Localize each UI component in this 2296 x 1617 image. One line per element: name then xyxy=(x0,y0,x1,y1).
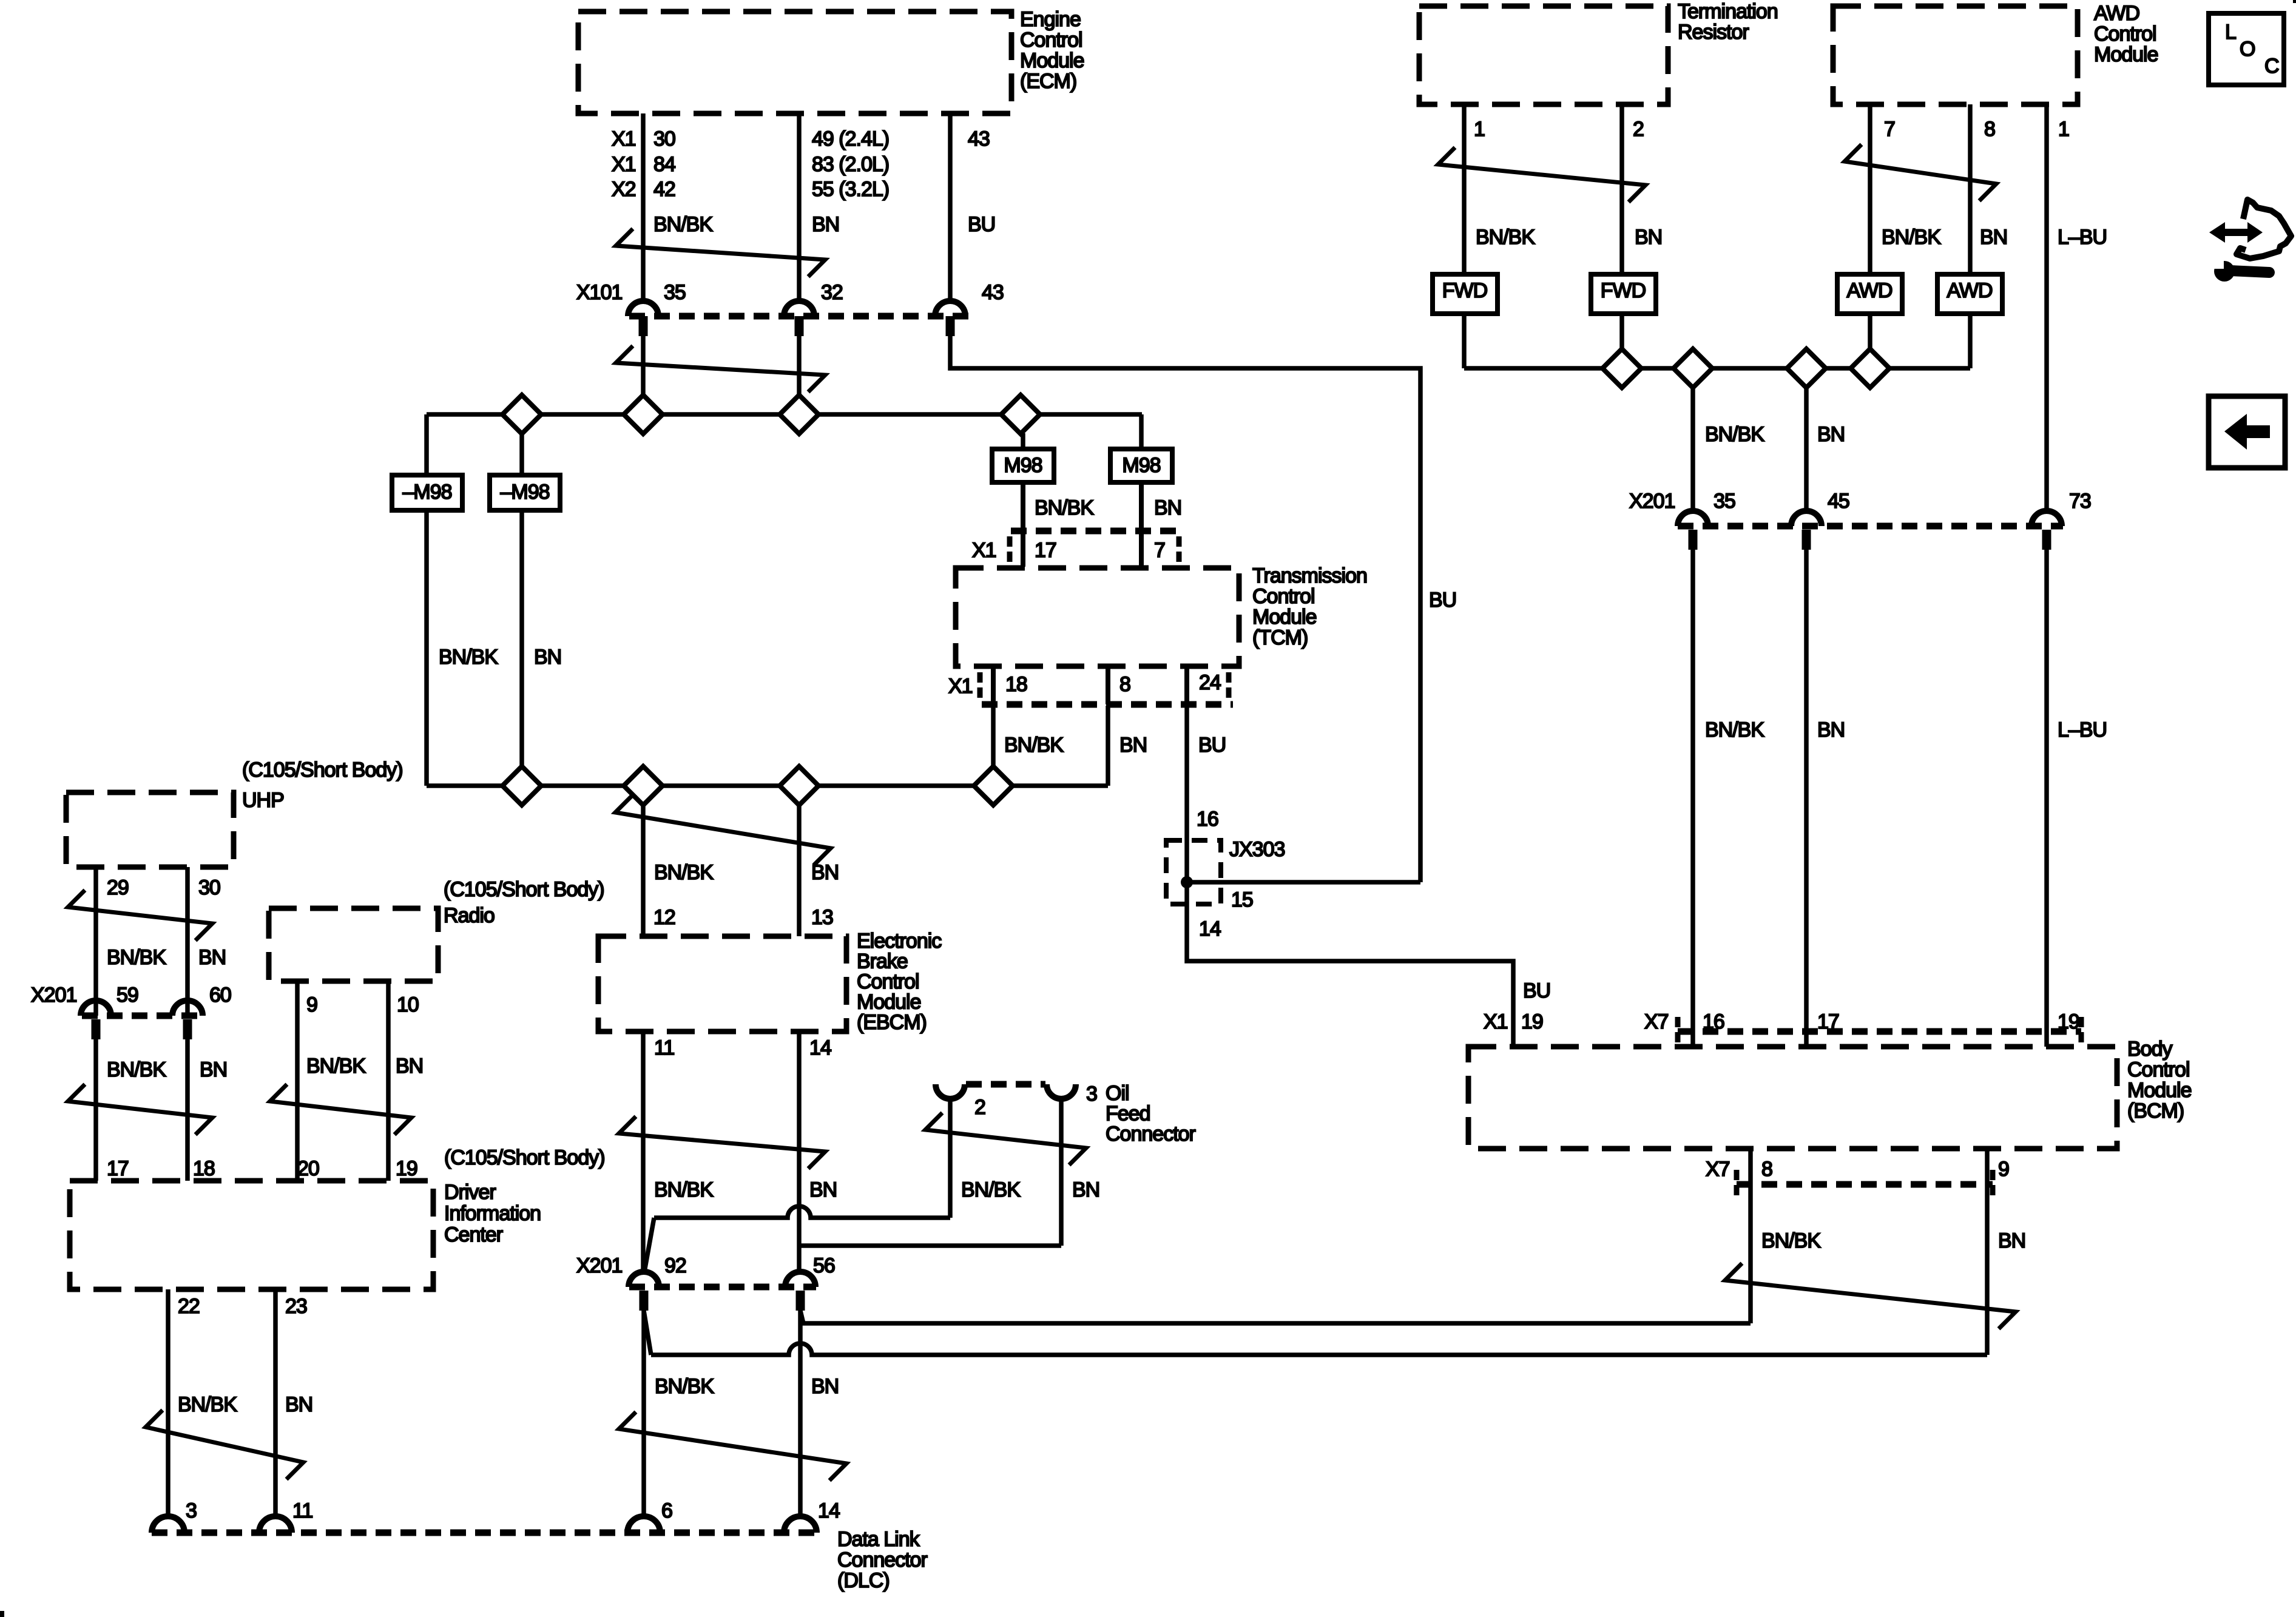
svg-text:Module: Module xyxy=(1252,606,1317,629)
icon double arrow + contour + wrench xyxy=(2209,200,2291,282)
net box FWD no.2 xyxy=(1591,274,1656,314)
svg-text:L–BU: L–BU xyxy=(2058,226,2107,249)
svg-text:BN/BK: BN/BK xyxy=(1761,1229,1821,1252)
pin TCM-8 wire xyxy=(1108,667,1130,704)
wire Radio-9 down to DIC-20 xyxy=(297,981,317,1181)
wire X201-56 down to DLC-14 xyxy=(798,1311,803,1518)
wire TCM-24 BU down to JX303 xyxy=(1184,706,1189,840)
svg-text:9: 9 xyxy=(306,993,317,1016)
connector X101 pin 32 arc+stub xyxy=(784,281,843,336)
splice diamond bus3 at 3082 xyxy=(1851,349,1889,388)
connector TCM X1 bottom dashed line xyxy=(980,672,1233,704)
wire bus3 diamond down to X201-35 xyxy=(1690,387,1695,511)
svg-text:Module: Module xyxy=(2127,1079,2192,1102)
svg-text:7: 7 xyxy=(1884,118,1895,141)
label Data Link Connector (DLC) xyxy=(837,1528,928,1592)
svg-text:42: 42 xyxy=(653,178,675,201)
twisted pair symbol (oil feed) xyxy=(925,1113,1086,1165)
svg-text:BU: BU xyxy=(1198,734,1226,757)
net box AWD no.1 xyxy=(1837,274,1902,314)
svg-text:L–BU: L–BU xyxy=(2058,718,2107,741)
wire Term pin 2 down xyxy=(1622,104,1644,274)
svg-text:8: 8 xyxy=(1984,118,1995,141)
label X201 (bottom) xyxy=(576,1254,622,1277)
pin TCM-24 wire xyxy=(1187,667,1221,704)
svg-text:29: 29 xyxy=(107,876,129,899)
label BN/BK (TCM-18) xyxy=(1004,734,1064,757)
wire ECM pin 30 BN/BK down to X101-35 xyxy=(641,113,646,302)
label pin 13 (EBCM) xyxy=(811,906,833,929)
twisted pair symbol (AWD wires) xyxy=(1845,144,1996,201)
label BN (Radio-10) xyxy=(396,1055,423,1078)
wire AWD pin 1 L-BU down to X201-73 xyxy=(2047,104,2069,511)
svg-text:X7: X7 xyxy=(1706,1158,1730,1181)
svg-text:16: 16 xyxy=(1703,1010,1724,1033)
wire DIC-22 down to DLC-3 xyxy=(168,1289,200,1517)
svg-text:Control: Control xyxy=(1020,29,1082,52)
svg-text:16: 16 xyxy=(1197,808,1218,831)
svg-text:AWD: AWD xyxy=(2094,2,2139,25)
svg-text:X2: X2 xyxy=(612,178,636,201)
label BN/BK (X201-35 to BCM) xyxy=(1705,718,1764,741)
label (C105/Short Body) near Radio xyxy=(444,878,604,901)
label (C105/Short Body) near DIC xyxy=(444,1146,605,1169)
wire bus1 right end down to M98 box2 xyxy=(1139,414,1144,449)
svg-text:92: 92 xyxy=(664,1254,686,1277)
svg-text:3: 3 xyxy=(1086,1082,1097,1106)
svg-text:10: 10 xyxy=(397,993,419,1016)
label BN (EBCM-13 wire) xyxy=(811,861,839,884)
connector X201 pin 73 arc+stub xyxy=(2031,490,2091,550)
label X101 xyxy=(576,281,622,304)
wire ECM pin 49 BN down to X101-32 xyxy=(797,113,802,302)
label BN (Term-2) xyxy=(1635,226,1662,249)
label BN (TCM-8) xyxy=(1119,734,1147,757)
label BN/BK (Radio-9) xyxy=(306,1055,366,1078)
svg-text:Resistor: Resistor xyxy=(1678,21,1749,44)
label BU (tall vertical) xyxy=(1429,589,1456,612)
connector TCM X1 top dashed line xyxy=(1010,531,1180,563)
svg-text:(BCM): (BCM) xyxy=(2127,1099,2184,1122)
svg-text:Connector: Connector xyxy=(1106,1122,1196,1146)
label Termination Resistor xyxy=(1678,0,1778,44)
wire EBCM-11 BN/BK down to X201-92 xyxy=(641,1031,646,1273)
wire bus3 diamond down to X201-45 xyxy=(1804,387,1809,511)
label pin 18 (DIC) xyxy=(193,1157,215,1180)
svg-text:BN: BN xyxy=(1817,423,1845,446)
svg-text:Module: Module xyxy=(857,991,921,1014)
svg-text:49 (2.4L): 49 (2.4L) xyxy=(812,127,889,150)
svg-text:Control: Control xyxy=(2127,1058,2190,1081)
splice diamond bus1 at 1320 xyxy=(780,395,819,434)
svg-text:Module: Module xyxy=(1020,49,1084,72)
twisted pair symbol (below X101) xyxy=(616,346,825,392)
svg-text:Module: Module xyxy=(2094,43,2158,66)
label Transmission Control Module (TCM) xyxy=(1252,564,1367,649)
wire bus1 horizontal xyxy=(427,412,1142,417)
wire AWD-7 to bus3 diamond xyxy=(1868,314,1872,349)
svg-text:BN: BN xyxy=(812,213,839,236)
svg-text:BN: BN xyxy=(1635,226,1662,249)
svg-text:X101: X101 xyxy=(576,281,622,304)
svg-text:BN: BN xyxy=(811,861,839,884)
connector X201 pin 59 arc+stub xyxy=(81,984,138,1039)
twisted pair symbol (UHP wires) xyxy=(68,890,212,940)
svg-text:X201: X201 xyxy=(1629,490,1675,513)
wire bus1 left end down to bus2 (through -M98) xyxy=(424,414,429,786)
label pin 12 (EBCM) xyxy=(653,906,675,929)
svg-text:BN/BK: BN/BK xyxy=(654,861,714,884)
wire X101-32 down to bus1 diamond xyxy=(797,336,802,396)
svg-text:14: 14 xyxy=(1199,917,1221,940)
label ECM pin rows X1 30 / X1 84 / X2 42 xyxy=(612,127,675,201)
svg-text:Connector: Connector xyxy=(837,1548,928,1571)
label BN (above DLC-14) xyxy=(811,1375,839,1398)
svg-text:56: 56 xyxy=(813,1254,835,1277)
connector Oil Feed pin 3 arc xyxy=(1047,1082,1097,1106)
svg-text:Feed: Feed xyxy=(1106,1102,1150,1126)
label BN/BK (EBCM-12 wire) xyxy=(654,861,714,884)
svg-text:BN/BK: BN/BK xyxy=(1004,734,1064,757)
pin TCM-18 wire xyxy=(993,667,1027,704)
wire UHP-30 down to X201-60 xyxy=(187,867,220,1016)
svg-text:(DLC): (DLC) xyxy=(837,1569,890,1592)
junction dot JX303 xyxy=(1181,876,1193,888)
icon LOC box xyxy=(2209,13,2284,85)
label BN/BK (oil feed 2) xyxy=(961,1178,1021,1201)
svg-text:11: 11 xyxy=(654,1036,674,1059)
svg-text:1: 1 xyxy=(1474,118,1485,141)
wire X201-73 down to BCM X7-19 xyxy=(2044,549,2049,1047)
label BN (AWD-8) xyxy=(1980,226,2007,249)
svg-text:BN: BN xyxy=(534,646,561,669)
ground box -M98 no.1 xyxy=(392,475,462,510)
connector X201 right dashed line xyxy=(1678,523,2063,530)
svg-text:BU: BU xyxy=(968,213,995,236)
svg-text:Body: Body xyxy=(2127,1038,2172,1061)
label BN (X201-45 to BCM) xyxy=(1817,718,1845,741)
svg-text:(TCM): (TCM) xyxy=(1252,626,1308,649)
connector X201 pin 45 arc+stub xyxy=(1791,490,1849,550)
label BN (UHP-30) xyxy=(198,946,226,969)
label pin 19 (BCM X7) xyxy=(2058,1010,2079,1033)
svg-text:X7: X7 xyxy=(1644,1010,1669,1033)
module Termination Resistor box xyxy=(1419,6,1668,104)
connector DLC dashed line xyxy=(152,1530,816,1536)
label L-BU (X201-73 to BCM) xyxy=(2058,718,2107,741)
label pin 17 (BCM X7) xyxy=(1817,1010,1839,1033)
svg-text:BN: BN xyxy=(1998,1229,2025,1252)
wire X201-59 down to DIC-17 xyxy=(93,1039,98,1181)
svg-text:Brake: Brake xyxy=(857,950,908,973)
svg-text:C: C xyxy=(2264,55,2279,78)
label BN (ECM wire) xyxy=(812,213,839,236)
label pin 7 (TCM) xyxy=(1154,539,1165,562)
svg-text:Driver: Driver xyxy=(444,1181,496,1204)
svg-text:32: 32 xyxy=(821,281,843,304)
wire M98 box2 down to TCM X1-7 xyxy=(1139,482,1144,567)
svg-text:O: O xyxy=(2240,38,2255,61)
svg-text:Radio: Radio xyxy=(444,904,495,927)
connector X201 pin 56 arc+stub xyxy=(785,1254,835,1311)
label Body Control Module (BCM) xyxy=(2127,1038,2192,1122)
ground box M98 no.1 xyxy=(992,449,1054,482)
label (C105/Short Body) near bus2 left xyxy=(242,758,403,781)
svg-text:X1: X1 xyxy=(948,675,973,698)
splice diamond bus1 at 860 xyxy=(502,395,541,434)
svg-text:59: 59 xyxy=(116,984,138,1007)
svg-text:19: 19 xyxy=(396,1157,417,1180)
svg-text:BN/BK: BN/BK xyxy=(1705,718,1764,741)
connector X201 pin 92 arc+stub xyxy=(629,1254,686,1311)
connector Oil Feed dashed line xyxy=(966,1081,1045,1088)
wire AWD pin 8 down xyxy=(1970,104,1995,274)
label BN/BK (X201-59) xyxy=(107,1058,166,1081)
label pin 11 (EBCM) xyxy=(654,1036,674,1059)
label BN (above X201-45) xyxy=(1817,423,1845,446)
svg-text:UHP: UHP xyxy=(242,789,284,812)
wire X101-35 down to bus1 diamond xyxy=(641,336,646,395)
label Oil Feed Connector xyxy=(1106,1082,1196,1146)
svg-text:35: 35 xyxy=(664,281,686,304)
svg-text:Electronic: Electronic xyxy=(857,930,942,953)
svg-text:24: 24 xyxy=(1199,671,1221,694)
connector BCM top dashed line xyxy=(1678,1017,2081,1045)
svg-text:Data Link: Data Link xyxy=(837,1528,920,1551)
svg-text:3: 3 xyxy=(186,1499,197,1522)
svg-text:22: 22 xyxy=(178,1295,200,1318)
svg-text:73: 73 xyxy=(2069,490,2091,513)
label JX303 xyxy=(1229,838,1285,861)
twisted pair symbol (DIC-DLC wires) xyxy=(146,1410,303,1479)
net box AWD no.2 xyxy=(1937,274,2002,314)
svg-text:–M98: –M98 xyxy=(500,481,549,504)
svg-text:(C105/Short Body): (C105/Short Body) xyxy=(444,878,604,901)
label pin 19 (DIC) xyxy=(396,1157,417,1180)
svg-text:BN: BN xyxy=(1154,496,1181,519)
ground box -M98 no.2 xyxy=(490,475,560,510)
svg-text:BN: BN xyxy=(200,1058,227,1081)
svg-text:BN/BK: BN/BK xyxy=(306,1055,366,1078)
svg-text:17: 17 xyxy=(1035,539,1056,562)
splice diamond bus3 at 2673 xyxy=(1602,349,1641,388)
svg-text:BN/BK: BN/BK xyxy=(655,1375,714,1398)
svg-text:13: 13 xyxy=(811,906,833,929)
svg-text:35: 35 xyxy=(1714,490,1735,513)
splice diamond bus2 at 860 xyxy=(502,766,541,805)
wire M98 box1 down to TCM X1-17 xyxy=(1021,482,1025,567)
splice diamond bus2 at 1060 xyxy=(624,766,663,805)
svg-text:BN/BK: BN/BK xyxy=(439,646,498,669)
label pin 14 (JX303) xyxy=(1199,917,1221,940)
ground box M98 no.2 xyxy=(1110,449,1172,482)
svg-text:X1: X1 xyxy=(612,153,636,176)
svg-text:84: 84 xyxy=(653,153,675,176)
twisted pair symbol (EBCM upper) xyxy=(615,795,831,865)
svg-text:X201: X201 xyxy=(31,984,76,1007)
label BN/BK (DIC-22) xyxy=(178,1393,237,1416)
connector X101 dashed line xyxy=(629,313,969,320)
splice diamond bus3 at 2790 xyxy=(1673,349,1712,388)
artifact top-right corner mark xyxy=(2293,0,2296,3)
label Engine Control Module (ECM) xyxy=(1020,8,1084,93)
connector JX303 dashed box xyxy=(1166,840,1221,904)
svg-text:18: 18 xyxy=(193,1157,215,1180)
svg-text:BU: BU xyxy=(1523,979,1550,1002)
connector BCM X7 bottom dashed line xyxy=(1737,1170,1993,1198)
label BN/BK (ECM wire) xyxy=(653,213,713,236)
svg-text:43: 43 xyxy=(982,281,1004,304)
wire TCM-8 BN down to bus2 right end xyxy=(1106,706,1110,786)
svg-text:L: L xyxy=(2225,21,2236,44)
svg-text:83 (2.0L): 83 (2.0L) xyxy=(812,153,889,176)
label BN (oil feed 3) xyxy=(1072,1178,1099,1201)
svg-text:M98: M98 xyxy=(1004,454,1042,477)
icon back-arrow box xyxy=(2209,396,2285,468)
svg-text:8: 8 xyxy=(1761,1158,1772,1181)
splice diamond bus1 at 1685 xyxy=(1001,395,1040,434)
label BN/BK (above X201-92) xyxy=(654,1178,714,1201)
svg-text:BN/BK: BN/BK xyxy=(107,946,166,969)
svg-text:BN: BN xyxy=(1980,226,2007,249)
label BN (above X201-56) xyxy=(809,1178,837,1201)
svg-text:(EBCM): (EBCM) xyxy=(857,1011,927,1034)
svg-text:Transmission: Transmission xyxy=(1252,564,1367,587)
module Radio box xyxy=(269,908,438,981)
svg-text:14: 14 xyxy=(809,1036,831,1059)
label X1 (TCM bottom) xyxy=(948,675,973,698)
label X1 (TCM top) xyxy=(972,539,996,562)
wire Oil Feed-3 BN down xyxy=(1059,1099,1064,1246)
svg-text:12: 12 xyxy=(653,906,675,929)
label UHP xyxy=(242,789,284,812)
svg-text:Termination: Termination xyxy=(1678,0,1778,23)
wire bus2 horizontal xyxy=(427,783,1108,788)
svg-text:(ECM): (ECM) xyxy=(1020,70,1076,93)
svg-text:BN/BK: BN/BK xyxy=(1705,423,1764,446)
svg-text:(C105/Short Body): (C105/Short Body) xyxy=(444,1146,605,1169)
svg-text:20: 20 xyxy=(297,1157,319,1180)
connector DLC pin 6 arc xyxy=(627,1499,672,1533)
twisted pair symbol (termination wires) xyxy=(1438,147,1646,202)
svg-text:BN: BN xyxy=(1119,734,1147,757)
wire X201-92 right to BCM X7-9 (BN/BK, hop over BN) xyxy=(644,1149,1987,1355)
svg-text:45: 45 xyxy=(1828,490,1849,513)
wire BU route X101-43 right to tall vertical xyxy=(950,336,1420,882)
svg-text:(C105/Short Body): (C105/Short Body) xyxy=(242,758,403,781)
svg-text:18: 18 xyxy=(1005,673,1027,696)
wire DIC-23 down to DLC-11 xyxy=(275,1289,307,1517)
wire AWD-8 to bus3 xyxy=(1968,314,1973,368)
label pin 14 (EBCM) xyxy=(809,1036,831,1059)
svg-text:17: 17 xyxy=(107,1157,129,1180)
splice diamond bus2 at 1637 xyxy=(974,766,1013,805)
wire bus1 diamond 860 down to bus2 diamond (through -M98) xyxy=(519,433,524,767)
svg-text:BN: BN xyxy=(809,1178,837,1201)
svg-text:7: 7 xyxy=(1154,539,1165,562)
label BU (TCM-24) xyxy=(1198,734,1226,757)
wire EBCM-14 BN down to X201-56 xyxy=(797,1031,802,1273)
label AWD Control Module xyxy=(2094,2,2158,66)
svg-text:BN/BK: BN/BK xyxy=(178,1393,237,1416)
wire bus1 diamond 1685 down to M98 box1 xyxy=(1021,433,1025,449)
svg-text:Oil: Oil xyxy=(1106,1082,1129,1105)
connector X101 pin 43 arc+stub xyxy=(935,281,1004,336)
connector DLC pin 11 arc xyxy=(259,1499,312,1533)
label BN/BK (AWD-7) xyxy=(1882,226,1941,249)
svg-text:BN: BN xyxy=(285,1393,312,1416)
label Radio xyxy=(444,904,495,927)
svg-text:Control: Control xyxy=(857,970,919,993)
svg-text:JX303: JX303 xyxy=(1229,838,1285,861)
twisted pair symbol (DLC wires) xyxy=(619,1412,846,1480)
wire FWD-1 to bus3 xyxy=(1462,314,1467,368)
module TCM box xyxy=(956,568,1239,666)
module BCM box xyxy=(1468,1047,2117,1149)
svg-text:BN/BK: BN/BK xyxy=(1882,226,1941,249)
wire oil-feed BN horizontal xyxy=(799,1243,1061,1248)
module EBCM box xyxy=(598,936,846,1031)
wire FWD-2 to bus3 diamond xyxy=(1619,314,1624,349)
svg-text:14: 14 xyxy=(818,1499,840,1522)
svg-text:19: 19 xyxy=(2058,1010,2079,1033)
svg-text:AWD: AWD xyxy=(1947,279,1992,302)
svg-text:11: 11 xyxy=(292,1499,312,1522)
label Electronic Brake Control Module (EBCM) xyxy=(857,930,942,1034)
label L-BU (AWD-1) xyxy=(2058,226,2107,249)
svg-text:60: 60 xyxy=(209,984,231,1007)
wire Term pin 1 down xyxy=(1464,104,1485,274)
wire AWD pin 7 down xyxy=(1870,104,1895,274)
wire X201-35 down to BCM X7-16 xyxy=(1690,549,1695,1047)
svg-text:BN: BN xyxy=(198,946,226,969)
wire JX303 junction right to BU vertical xyxy=(1187,880,1420,885)
svg-text:9: 9 xyxy=(1998,1158,2009,1181)
wire X201-60 down to DIC-18 xyxy=(185,1039,190,1181)
module AWD Control Module box xyxy=(1833,6,2078,104)
svg-text:55 (3.2L): 55 (3.2L) xyxy=(812,178,889,201)
wire TCM-18 BN/BK down to bus2 diamond xyxy=(991,706,996,767)
wire JX303 down pin 14 xyxy=(1184,840,1189,904)
svg-text:–M98: –M98 xyxy=(402,481,451,504)
label BN/BK (left bus wire) xyxy=(439,646,498,669)
connector X101 pin 35 arc+stub xyxy=(628,281,686,336)
svg-text:43: 43 xyxy=(968,127,990,150)
svg-text:BN/BK: BN/BK xyxy=(107,1058,166,1081)
label BN/BK (Term-1) xyxy=(1476,226,1535,249)
svg-text:6: 6 xyxy=(661,1499,672,1522)
connector Oil Feed pin 2 arc xyxy=(936,1084,985,1119)
connector X201 pin 60 arc+stub xyxy=(172,984,231,1039)
wire bus3 horizontal xyxy=(1464,366,1970,371)
connector X201 pin 35 arc+stub (right) xyxy=(1678,490,1735,550)
wire bus2 diamond down to EBCM-13 xyxy=(797,805,802,936)
label X201 (right) xyxy=(1629,490,1675,513)
svg-text:2: 2 xyxy=(974,1096,985,1119)
svg-text:8: 8 xyxy=(1119,673,1130,696)
svg-text:30: 30 xyxy=(653,127,675,150)
svg-text:BN: BN xyxy=(396,1055,423,1078)
label X7 (BCM bottom) xyxy=(1706,1158,1730,1181)
svg-text:BN/BK: BN/BK xyxy=(1035,496,1094,519)
svg-text:2: 2 xyxy=(1633,118,1644,141)
svg-text:BN: BN xyxy=(1817,718,1845,741)
connector X201 left dashed line xyxy=(82,1013,203,1019)
label pin 20 (DIC) xyxy=(297,1157,319,1180)
label BN/BK (BCM X7-8) xyxy=(1761,1229,1821,1252)
svg-text:BU: BU xyxy=(1429,589,1456,612)
wire ECM pin 43 BU down to X101-43 xyxy=(948,113,953,302)
